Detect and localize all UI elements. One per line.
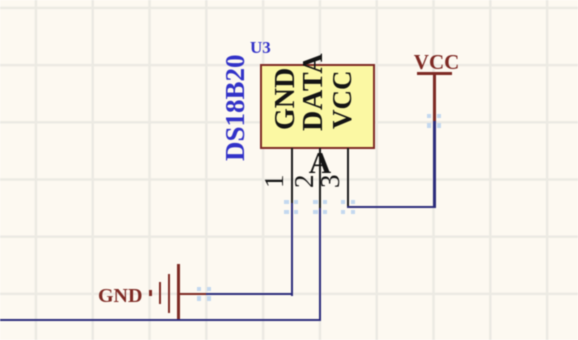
- pin name GND: [276, 110, 296, 130]
- ground symbol bar 2: [159, 282, 162, 304]
- junction marker pin1: [284, 200, 288, 204]
- GND power port stub (maroon): [179, 293, 206, 296]
- pin number 3: [320, 168, 340, 188]
- ground symbol bar 3: [168, 274, 171, 313]
- designator U3: [250, 38, 271, 58]
- wire pin1 to GND: [291, 203, 294, 296]
- pin number 1: [264, 168, 284, 188]
- ground symbol bar 4 (tallest): [177, 264, 180, 320]
- wire pin3 to VCC vertical: [433, 121, 436, 208]
- pin name VCC: [332, 109, 352, 129]
- pin name DATA: [304, 111, 324, 131]
- junction marker pin3: [341, 200, 345, 204]
- wire pin3 horizontal: [347, 206, 436, 209]
- VCC power port bar: [417, 72, 452, 75]
- junction marker VCC: [427, 114, 431, 118]
- pin number 2: [294, 168, 314, 188]
- junction marker pin2: [313, 200, 317, 204]
- wire pin2 vertical (DATA): [319, 208, 322, 321]
- pin 2 stub: [319, 148, 322, 209]
- net label GND: [98, 285, 142, 308]
- glyph A on pin 2: [309, 147, 331, 178]
- junction marker GND: [197, 287, 201, 291]
- wire DATA bottom horizontal: [0, 319, 321, 322]
- component U3 body (yellow box): [260, 64, 375, 149]
- VCC power port stem (maroon): [433, 74, 436, 121]
- pin 1 stub: [291, 148, 294, 204]
- wire GND horizontal (navy part): [206, 293, 293, 296]
- net label VCC: [414, 50, 455, 75]
- pin 3 stub: [347, 148, 350, 207]
- comment DS18B20: [225, 141, 245, 161]
- ground symbol bar 1 (dot): [149, 290, 152, 296]
